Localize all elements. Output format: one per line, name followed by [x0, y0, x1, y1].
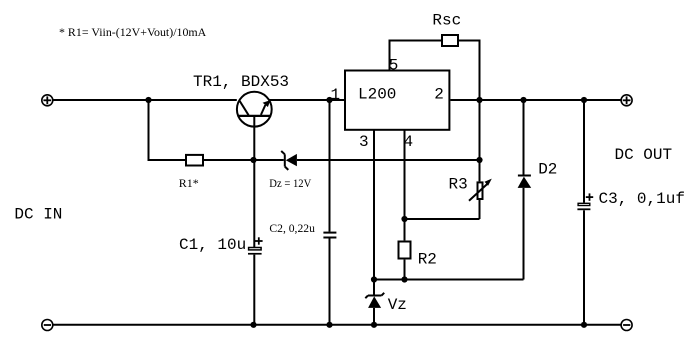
svg-text:R3: R3	[449, 176, 468, 194]
svg-text:DC OUT: DC OUT	[615, 146, 673, 164]
svg-text:DC IN: DC IN	[14, 206, 62, 224]
svg-text:L200: L200	[358, 86, 396, 104]
svg-text:C1, 10u: C1, 10u	[179, 236, 246, 254]
svg-text:2: 2	[434, 86, 444, 104]
svg-text:Vz: Vz	[388, 296, 407, 314]
svg-text:Dz = 12V: Dz = 12V	[269, 176, 311, 190]
svg-text:* R1= Viin-(12V+Vout)/10mA: * R1= Viin-(12V+Vout)/10mA	[59, 25, 207, 39]
svg-text:TR1, BDX53: TR1, BDX53	[193, 73, 289, 91]
svg-text:4: 4	[404, 133, 414, 151]
svg-text:1: 1	[331, 86, 341, 104]
svg-text:3: 3	[359, 133, 369, 151]
svg-text:5: 5	[389, 56, 399, 74]
svg-text:R2: R2	[418, 251, 437, 269]
svg-text:C2, 0,22u: C2, 0,22u	[269, 221, 315, 235]
svg-text:C3, 0,1uf: C3, 0,1uf	[599, 190, 685, 208]
svg-text:Rsc: Rsc	[432, 12, 461, 30]
svg-text:R1*: R1*	[179, 176, 199, 190]
svg-text:D2: D2	[538, 161, 557, 179]
